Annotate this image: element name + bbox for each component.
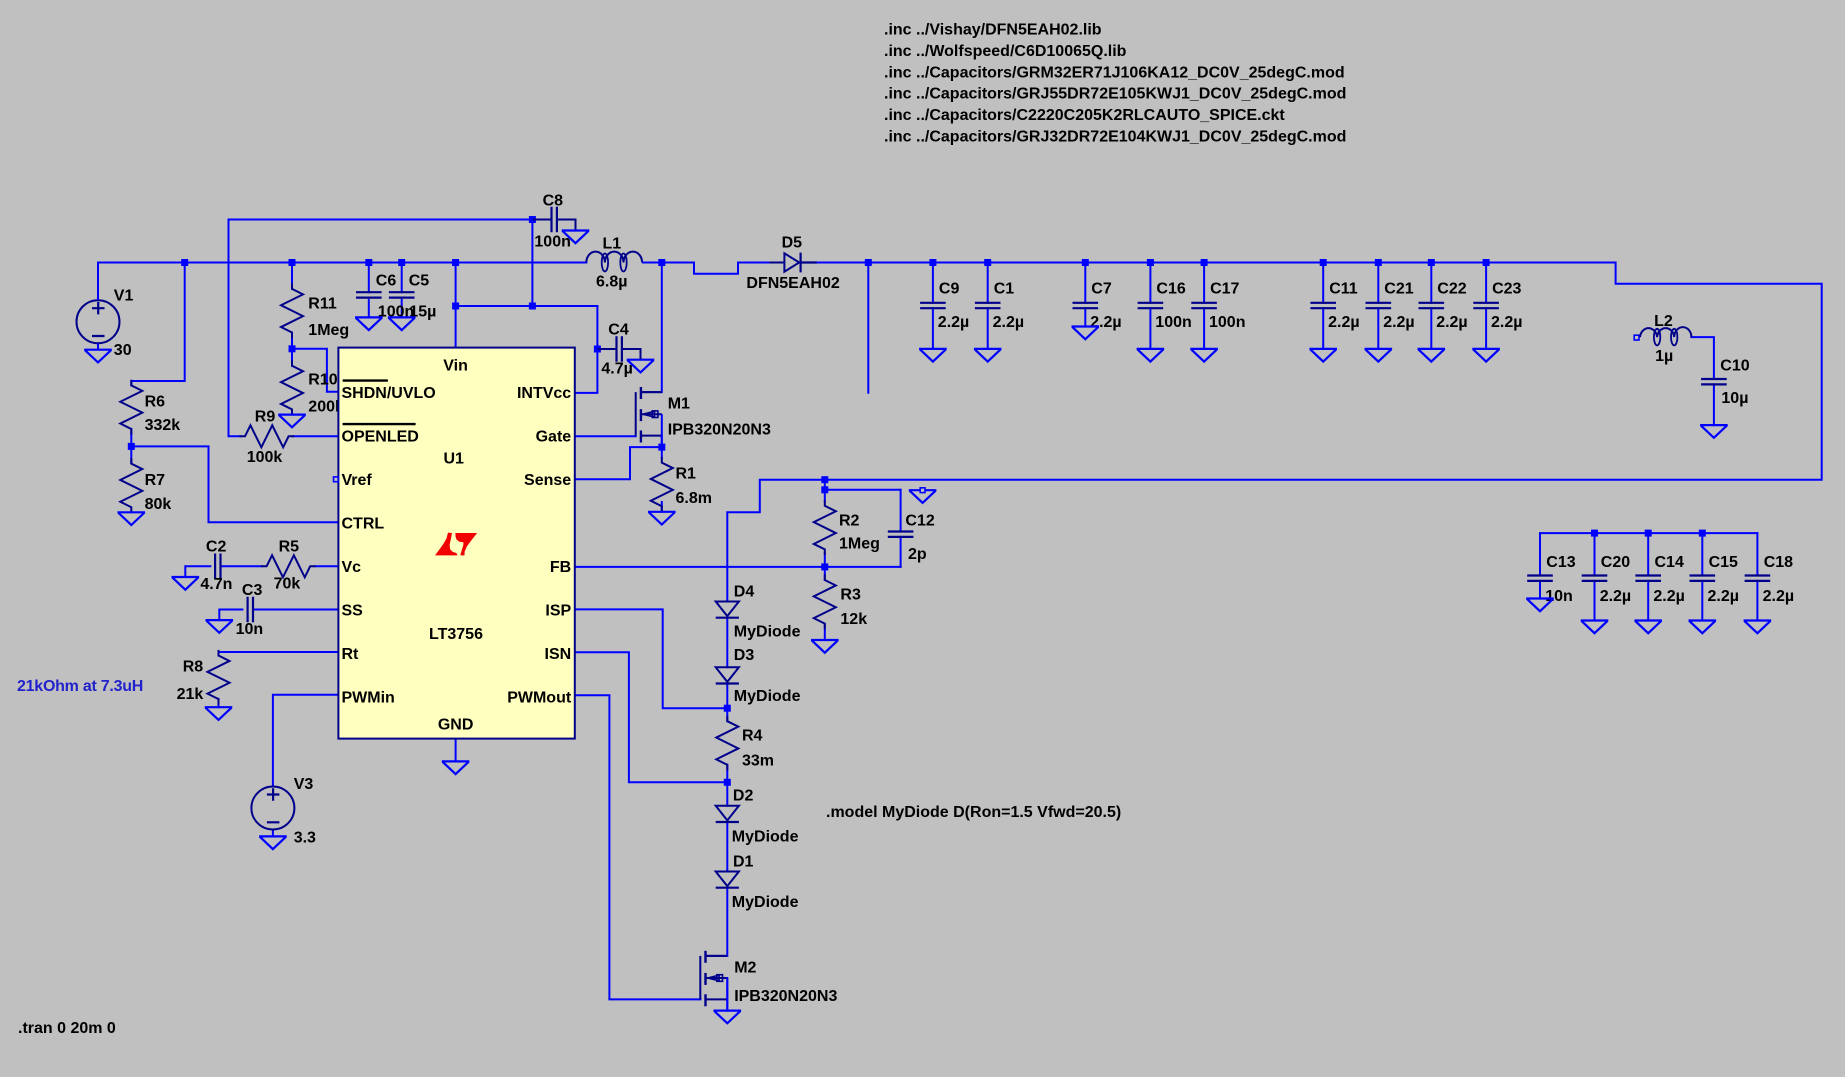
node junction M1 source/R1/Sense	[658, 444, 665, 451]
svg-text:100k: 100k	[247, 449, 283, 466]
capacitor C9	[921, 303, 944, 308]
wire bus to cap at x=1648	[1647, 533, 1649, 575]
svg-text:DFN5EAH02: DFN5EAH02	[746, 275, 839, 292]
wire M1 drain	[661, 263, 663, 393]
wire main output rail and LED return loop	[98, 262, 586, 264]
wire Sense to M1 source	[575, 447, 662, 479]
svg-text:C13: C13	[1546, 554, 1575, 571]
svg-text:ISN: ISN	[545, 646, 572, 663]
node junction ISN/R4/D2	[724, 779, 731, 786]
svg-text:R11: R11	[308, 296, 337, 313]
wire bottom cap bus	[1540, 532, 1757, 534]
svg-text:D1: D1	[733, 854, 754, 871]
wire rail to cap at x=1431	[1430, 263, 1432, 303]
svg-text:V1: V1	[114, 288, 134, 305]
svg-text:C7: C7	[1091, 280, 1112, 297]
wire rail to cap at x=988	[987, 263, 989, 303]
wire M1 source vertical	[661, 414, 663, 447]
ground under C20	[1582, 621, 1607, 634]
svg-text:21kOhm at 7.3uH: 21kOhm at 7.3uH	[17, 678, 143, 695]
svg-text:.model MyDiode D(Ron=1.5 Vfwd=: .model MyDiode D(Ron=1.5 Vfwd=20.5)	[826, 804, 1121, 821]
diode D4	[716, 602, 739, 617]
ground under V3	[260, 836, 285, 849]
svg-text:C3: C3	[242, 582, 263, 599]
ground under R1	[649, 512, 674, 525]
wire to R4 top	[726, 708, 728, 721]
svg-text:CTRL: CTRL	[342, 516, 385, 533]
voltage source V1	[77, 300, 120, 343]
wire cap to ground at x=1594	[1594, 581, 1596, 621]
resistor R1	[651, 458, 673, 511]
node junction on rail x=1204	[1201, 259, 1208, 266]
ground flag floating near C12	[910, 490, 935, 503]
wire rail to cap at x=1204	[1203, 263, 1205, 303]
ground under C15	[1690, 621, 1715, 634]
capacitor C7	[1074, 303, 1097, 308]
wire to R3 top	[824, 567, 826, 580]
svg-text:C16: C16	[1156, 280, 1185, 297]
svg-text:C18: C18	[1764, 554, 1793, 571]
wire R2 bottom	[824, 553, 826, 567]
capacitor C2	[215, 555, 220, 578]
wire C10 to ground	[1713, 384, 1715, 425]
svg-text:2.2µ: 2.2µ	[1600, 588, 1631, 605]
wire L2 to C10	[1691, 337, 1714, 379]
wire to D2	[726, 782, 728, 806]
svg-text:M1: M1	[668, 395, 690, 412]
svg-text:3.3: 3.3	[294, 829, 316, 846]
wire M1 drain stub	[641, 391, 662, 393]
capacitor C16	[1139, 303, 1162, 308]
ground under C17	[1191, 349, 1216, 362]
wire rail to cap at x=1486	[1485, 263, 1487, 303]
svg-text:PWMout: PWMout	[507, 690, 572, 707]
ground left of C3	[207, 620, 232, 633]
node junction on rail x=1085	[1082, 259, 1089, 266]
wire Vin drop	[455, 263, 457, 348]
svg-text:INTVcc: INTVcc	[517, 385, 571, 402]
svg-text:2.2µ: 2.2µ	[1763, 588, 1794, 605]
capacitor C13	[1528, 576, 1551, 581]
inductor L2	[1634, 335, 1639, 340]
svg-text:100n: 100n	[1155, 314, 1191, 331]
ground under V1	[85, 350, 110, 363]
node junction R2 top	[821, 486, 828, 493]
svg-text:C2: C2	[206, 539, 227, 556]
node junction on rail x=1150	[1147, 259, 1154, 266]
svg-text:6.8m: 6.8m	[676, 490, 712, 507]
wire R6 to R7 node	[130, 429, 132, 463]
svg-text:Sense: Sense	[524, 472, 571, 489]
svg-text:C20: C20	[1601, 554, 1630, 571]
ground under R3	[812, 640, 837, 653]
wire C8 to INTVcc node	[531, 220, 533, 307]
capacitor C3	[248, 598, 253, 621]
svg-text:SHDN/UVLO: SHDN/UVLO	[342, 385, 436, 402]
svg-text:80k: 80k	[145, 496, 172, 513]
ground under C7	[1073, 327, 1098, 340]
ground under C23	[1473, 349, 1498, 362]
wire rail to R6	[131, 263, 184, 386]
wire Gate to M1	[575, 435, 636, 437]
capacitor C10	[1702, 379, 1725, 384]
ground under R10	[279, 415, 304, 428]
svg-text:C11: C11	[1329, 280, 1358, 297]
svg-text:C9: C9	[939, 280, 960, 297]
svg-text:R8: R8	[183, 658, 204, 675]
resistor R10	[281, 361, 303, 414]
svg-text:L1: L1	[603, 236, 622, 253]
wire stub below D5 junction	[867, 263, 869, 393]
wire rail to cap at x=1150	[1149, 263, 1151, 303]
svg-text:2p: 2p	[908, 546, 927, 563]
svg-text:2.2µ: 2.2µ	[1090, 314, 1121, 331]
svg-text:C23: C23	[1492, 280, 1521, 297]
wire R3 to ground	[824, 624, 826, 640]
wire D2 to D1	[726, 822, 728, 872]
resistor R7	[120, 459, 142, 512]
capacitor C18	[1746, 576, 1769, 581]
wire M2 source to ground	[726, 978, 728, 1011]
wire SS to C3	[254, 609, 339, 611]
logo Linear Technology LT	[435, 533, 458, 556]
svg-text:R6: R6	[145, 393, 166, 410]
resistor R5	[262, 555, 315, 577]
node junction on rail x=988	[984, 259, 991, 266]
svg-text:M2: M2	[734, 960, 756, 977]
svg-text:1Meg: 1Meg	[839, 536, 880, 553]
svg-text:C6: C6	[376, 272, 397, 289]
wire cap to ground at x=933	[932, 308, 934, 349]
wire C5 to ground	[401, 300, 403, 318]
wire L1 node to D5 anode with jog	[662, 263, 770, 274]
node junction LED return/R2	[821, 476, 828, 483]
svg-text:R1: R1	[676, 465, 697, 482]
svg-text:C21: C21	[1384, 280, 1413, 297]
wire D1 to M2 drain	[726, 887, 728, 956]
transistor M1 NMOS	[640, 387, 642, 399]
ground left of C2	[173, 577, 198, 590]
svg-text:SS: SS	[342, 603, 364, 620]
inductor L1	[586, 252, 642, 263]
svg-text:R3: R3	[840, 586, 861, 603]
voltage source V3	[251, 787, 294, 830]
node junction R6/R7/CTRL	[128, 443, 135, 450]
ground under R8	[206, 707, 231, 720]
wire R2 tap	[824, 480, 826, 490]
capacitor C14	[1637, 576, 1660, 581]
ground under C21	[1366, 349, 1391, 362]
capacitor C5	[390, 292, 413, 297]
svg-text:D3: D3	[734, 647, 755, 664]
resistor R6	[120, 381, 142, 434]
wire Rt to R8	[219, 652, 339, 656]
wire PWMout to M2 gate	[575, 695, 701, 999]
wire C12 top lead	[900, 490, 902, 532]
node junction on rail x=292	[289, 259, 296, 266]
wire ISN	[575, 652, 728, 782]
wire R4 bottom	[726, 765, 728, 783]
svg-text:21k: 21k	[177, 686, 204, 703]
resistor R2	[814, 501, 836, 554]
wire cap to ground at x=988	[987, 308, 989, 349]
transistor M2 NMOS	[704, 951, 706, 963]
svg-text:LT3756: LT3756	[429, 626, 483, 643]
ground under C14	[1636, 621, 1661, 634]
capacitor C8	[552, 208, 557, 231]
svg-text:33m: 33m	[742, 752, 774, 769]
resistor R8	[208, 651, 230, 704]
wire rail to cap at x=1323	[1322, 263, 1324, 303]
svg-text:10µ: 10µ	[1721, 390, 1748, 407]
svg-text:1Meg: 1Meg	[308, 322, 349, 339]
node junction on rail x=1486	[1483, 259, 1490, 266]
wire cap to ground at x=1648	[1647, 581, 1649, 621]
capacitor C17	[1192, 303, 1215, 308]
svg-text:100n: 100n	[534, 234, 570, 251]
wire R8 to ground	[218, 699, 220, 707]
svg-text:2.2µ: 2.2µ	[1491, 314, 1522, 331]
wire rail to R11	[291, 263, 293, 289]
wire bus to cap at x=1594	[1594, 533, 1596, 575]
node junction on rail x=1323	[1320, 259, 1327, 266]
node junction cap bus x=1648	[1645, 530, 1652, 537]
wire cap to ground at x=1431	[1430, 308, 1432, 349]
wire R2/C12 top	[825, 489, 901, 491]
wire C2 to ground	[185, 566, 210, 577]
wire cap to ground at x=1486	[1485, 308, 1487, 349]
wire rail to C6	[368, 263, 370, 293]
svg-text:C12: C12	[905, 512, 934, 529]
svg-text:2.2µ: 2.2µ	[1708, 588, 1739, 605]
capacitor C1	[976, 303, 999, 308]
ground under C11	[1311, 349, 1336, 362]
resistor R9	[240, 425, 293, 447]
svg-text:2.2µ: 2.2µ	[938, 314, 969, 331]
wire C12 bottom lead	[900, 537, 902, 567]
wire ISP	[575, 609, 728, 708]
svg-text:C8: C8	[543, 192, 564, 209]
svg-text:.inc ../Capacitors/GRM32ER71J1: .inc ../Capacitors/GRM32ER71J106KA12_DC0…	[884, 64, 1345, 81]
wire bus to cap at x=1702	[1701, 533, 1703, 575]
svg-text:4.7n: 4.7n	[200, 576, 232, 593]
ground under C10	[1701, 425, 1726, 438]
svg-text:FB: FB	[550, 559, 571, 576]
wire cap to ground at x=1323	[1322, 308, 1324, 349]
wire FB net	[575, 566, 901, 568]
node junction C8/INTVcc	[529, 303, 536, 310]
ground under C13	[1527, 599, 1552, 612]
svg-text:C22: C22	[1437, 280, 1466, 297]
svg-text:70k: 70k	[274, 576, 301, 593]
diode D3	[716, 667, 739, 682]
node junction on rail x=1378	[1375, 259, 1382, 266]
svg-text:.inc ../Vishay/DFN5EAH02.lib: .inc ../Vishay/DFN5EAH02.lib	[884, 22, 1102, 39]
wire R9 to OPENLED pin	[293, 435, 338, 437]
wire Vc to R5	[315, 565, 339, 567]
diode D1	[716, 872, 739, 887]
svg-text:Vref: Vref	[342, 472, 373, 489]
wire INTVcc node horizontal	[456, 305, 598, 307]
ground right of C8	[563, 231, 588, 244]
capacitor C4	[617, 337, 622, 360]
node junction FB/R2/R3	[821, 563, 828, 570]
svg-text:U1: U1	[443, 451, 464, 468]
svg-text:C5: C5	[409, 272, 430, 289]
ground under C6	[356, 317, 381, 330]
capacitor C20	[1583, 576, 1606, 581]
wire cap to ground at x=1702	[1701, 581, 1703, 621]
svg-text:Vin: Vin	[443, 358, 468, 375]
wire SHDN/UVLO	[292, 349, 338, 392]
diode D2	[716, 806, 739, 821]
wire R11 to R10 node	[291, 333, 293, 366]
svg-text:Vc: Vc	[342, 559, 362, 576]
ground under C18	[1745, 621, 1770, 634]
svg-text:R7: R7	[145, 472, 166, 489]
node junction cap bus x=1702	[1699, 530, 1706, 537]
svg-text:.inc ../Capacitors/GRJ32DR72E1: .inc ../Capacitors/GRJ32DR72E104KWJ1_DC0…	[884, 129, 1346, 146]
wire rail to cap at x=1085	[1084, 263, 1086, 303]
diode D5	[770, 262, 785, 264]
wire M1 source to R1	[661, 436, 663, 458]
node junction R11/R10/SHDN	[289, 345, 296, 352]
svg-text:R2: R2	[839, 512, 860, 529]
node junction on rail x=1431	[1428, 259, 1435, 266]
node junction C4 tap	[594, 346, 601, 353]
resistor R4	[716, 717, 738, 770]
capacitor C23	[1474, 303, 1497, 308]
svg-text:R4: R4	[742, 728, 763, 745]
ground under M2	[715, 1011, 740, 1024]
wire rail to cap at x=933	[932, 263, 934, 303]
svg-text:MyDiode: MyDiode	[732, 829, 799, 846]
svg-text:6.8µ: 6.8µ	[596, 273, 627, 290]
wire to INTVcc pin	[575, 306, 598, 393]
wire PWMin to V3	[273, 695, 339, 787]
wire D3 to ISP node	[726, 683, 728, 708]
ground under R7	[119, 512, 144, 525]
capacitor C22	[1420, 303, 1443, 308]
node junction on rail x=369	[365, 259, 372, 266]
svg-text:2.2µ: 2.2µ	[1328, 314, 1359, 331]
wire V1 top stem	[97, 263, 99, 301]
svg-text:Rt: Rt	[342, 646, 360, 663]
svg-text:L2: L2	[1654, 313, 1673, 330]
svg-text:.tran 0 20m 0: .tran 0 20m 0	[18, 1020, 116, 1037]
wire cap to ground at x=1757	[1756, 581, 1758, 621]
capacitor C12	[889, 532, 912, 537]
svg-text:332k: 332k	[145, 417, 181, 434]
wire C3 to ground	[219, 610, 242, 621]
wire C6 to ground	[368, 300, 370, 318]
resistor R11	[281, 284, 303, 337]
ground right of C4	[628, 360, 653, 373]
svg-text:D4: D4	[734, 583, 755, 600]
svg-text:.inc ../Wolfspeed/C6D10065Q.li: .inc ../Wolfspeed/C6D10065Q.lib	[884, 43, 1127, 60]
wire rail to cap at x=1378	[1377, 263, 1379, 303]
ground under C22	[1419, 349, 1444, 362]
svg-text:D5: D5	[782, 235, 803, 252]
svg-text:C14: C14	[1655, 554, 1684, 571]
svg-text:C15: C15	[1709, 554, 1738, 571]
wire bus to cap at x=1757	[1756, 533, 1758, 575]
svg-text:OPENLED: OPENLED	[342, 429, 419, 446]
svg-text:C4: C4	[608, 322, 629, 339]
svg-text:2.2µ: 2.2µ	[1436, 314, 1467, 331]
capacitor C21	[1367, 303, 1390, 308]
svg-text:MyDiode: MyDiode	[734, 624, 801, 641]
svg-text:GND: GND	[438, 717, 474, 734]
node junction on rail x=456	[452, 259, 459, 266]
svg-text:2.2µ: 2.2µ	[1383, 314, 1414, 331]
svg-text:PWMin: PWMin	[342, 690, 395, 707]
svg-text:MyDiode: MyDiode	[734, 688, 801, 705]
wire CTRL	[131, 446, 338, 522]
svg-text:IPB320N20N3: IPB320N20N3	[734, 988, 837, 1005]
svg-text:V3: V3	[294, 776, 314, 793]
wire M2 drain stub	[706, 955, 728, 957]
svg-text:C1: C1	[994, 280, 1015, 297]
wire cap to ground at x=1204	[1203, 308, 1205, 349]
node junction C8 tap	[529, 216, 536, 223]
wire M2 source vertical	[726, 978, 728, 1011]
ground under C1	[975, 349, 1000, 362]
capacitor C15	[1691, 576, 1714, 581]
wire to R2 top	[824, 490, 826, 501]
svg-text:R9: R9	[255, 408, 276, 425]
node junction on rail x=402	[398, 259, 405, 266]
node junction on rail x=933	[929, 259, 936, 266]
ground under C5	[389, 317, 414, 330]
wire rail to C5	[401, 263, 403, 293]
svg-text:1µ: 1µ	[1655, 348, 1673, 365]
svg-text:C10: C10	[1720, 358, 1749, 375]
svg-text:Gate: Gate	[536, 429, 572, 446]
svg-text:D2: D2	[733, 787, 754, 804]
svg-text:2.2µ: 2.2µ	[1653, 588, 1684, 605]
wire C13 to ground	[1539, 581, 1541, 599]
ground under C16	[1138, 349, 1163, 362]
wire GND pin stem	[455, 739, 457, 762]
node junction ISP/D3/R4	[724, 705, 731, 712]
capacitor C6	[357, 292, 380, 297]
wire R1 to ground	[661, 502, 663, 512]
svg-text:4.7µ: 4.7µ	[601, 361, 632, 378]
ground under U1 GND pin	[443, 761, 468, 774]
wire D4 to D3	[726, 618, 728, 668]
resistor R3	[814, 575, 836, 628]
svg-text:2.2µ: 2.2µ	[993, 314, 1024, 331]
node junction on rail x=185	[181, 259, 188, 266]
svg-text:ISP: ISP	[545, 603, 571, 620]
node junction Vin/INTVcc	[452, 303, 459, 310]
svg-text:12k: 12k	[840, 611, 867, 628]
svg-text:.inc ../Capacitors/GRJ55DR72E1: .inc ../Capacitors/GRJ55DR72E105KWJ1_DC0…	[884, 86, 1346, 103]
wire cap to ground at x=1150	[1149, 308, 1151, 349]
wire bus to C13	[1539, 533, 1541, 575]
ground under C9	[920, 349, 945, 362]
op-amp U1 LT3756 body	[338, 348, 574, 739]
capacitor C11	[1312, 303, 1335, 308]
wire cap to ground at x=1378	[1377, 308, 1379, 349]
wire R5 to C2	[221, 565, 263, 567]
svg-text:100n: 100n	[1209, 314, 1245, 331]
svg-text:C17: C17	[1210, 280, 1239, 297]
node junction cap bus x=1594	[1591, 530, 1598, 537]
wire C7 to ground	[1084, 308, 1086, 326]
svg-text:MyDiode: MyDiode	[732, 894, 799, 911]
